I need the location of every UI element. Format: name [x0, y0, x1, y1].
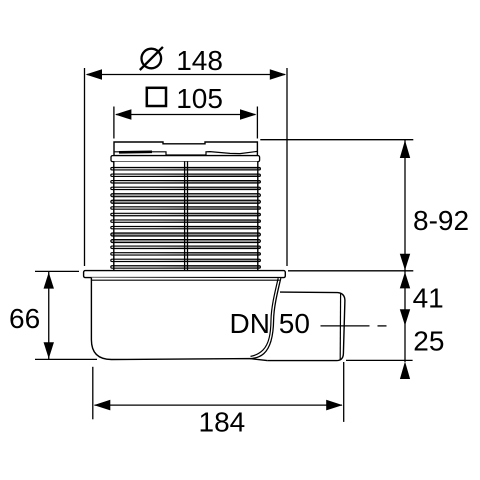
bottom extension line right: [343, 362, 345, 422]
arrow 66 top: [44, 272, 54, 288]
arrow 66 bottom: [44, 342, 54, 358]
grate frame shading streak: [119, 151, 152, 154]
body right wall outer curve: [250, 278, 281, 358]
left tick bottom 66: [35, 358, 97, 360]
collar ring: [111, 156, 260, 162]
extension line 148 left: [84, 68, 86, 266]
svg-text:41: 41: [413, 283, 444, 314]
outlet pipe outline: [267, 292, 345, 361]
arrow 8-92 bottom: [400, 254, 410, 270]
left tick top 66: [35, 270, 79, 272]
left dimension line 66: [48, 272, 50, 359]
arrow 105 right: [240, 109, 256, 120]
extension line pipe bottom: [346, 359, 413, 361]
dimension line 105: [116, 114, 255, 116]
grate frame inner step line: [114, 151, 257, 155]
extension line 148 right: [286, 68, 288, 266]
svg-text:66: 66: [9, 303, 40, 334]
square symbol: [147, 88, 166, 106]
ribbed riser body: [114, 162, 258, 271]
right dimension line: [404, 140, 406, 362]
arrow 184 right: [326, 400, 342, 411]
diameter symbol: [140, 47, 163, 70]
svg-text:DN: DN: [230, 308, 270, 339]
arrow 105 left: [115, 109, 131, 120]
svg-text:8-92: 8-92: [413, 205, 469, 236]
riser center joint: [184, 162, 186, 271]
arrow 41 top: [400, 272, 410, 288]
centerline dash short: [378, 325, 387, 327]
pipe end face inner line: [339, 293, 341, 360]
bottom dimension line 184: [95, 404, 343, 406]
outlet pipe fill: [267, 292, 345, 361]
svg-text:105: 105: [176, 83, 223, 114]
body left wall: [91, 278, 267, 361]
dimension line 148: [87, 74, 285, 76]
extension line flange level: [288, 270, 413, 272]
arrow 148 left: [86, 69, 102, 80]
extension line 105 right: [256, 107, 258, 139]
arrow 184 left: [94, 400, 110, 411]
riser right edge: [257, 162, 259, 271]
body shoulder line: [91, 279, 279, 281]
centerline dash long: [321, 325, 370, 327]
arrow 8-92 top: [400, 140, 410, 158]
bottom extension line left: [92, 367, 94, 420]
mounting flange: [84, 271, 286, 278]
grate frame top: [114, 142, 257, 156]
svg-text:148: 148: [176, 45, 223, 76]
arrow 41 bottom: [400, 309, 410, 325]
svg-text:50: 50: [279, 308, 310, 339]
riser left edge: [113, 162, 115, 271]
trap body fill: [91, 278, 280, 361]
extension line 105 left: [113, 107, 115, 139]
arrow 25 bottom outside: [400, 361, 410, 379]
svg-text:25: 25: [413, 326, 444, 357]
rib bands: [111, 168, 261, 269]
arrow 148 right: [270, 69, 286, 80]
svg-text:184: 184: [199, 406, 246, 437]
extension line top right: [260, 139, 413, 141]
body right wall inner curve: [251, 278, 279, 356]
